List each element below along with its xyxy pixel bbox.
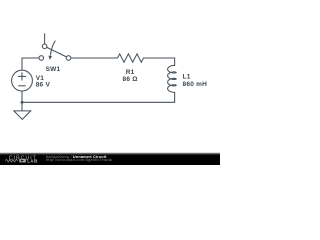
wire top-left horizontal (V1 top to SW1 left terminal)	[22, 58, 39, 70]
CircuitLab logo: resistor zigzag	[5, 159, 18, 162]
resistor R1	[118, 54, 144, 62]
SW1 top terminal	[42, 44, 47, 49]
footer watermark bar	[0, 153, 220, 165]
svg-text:LAB: LAB	[27, 158, 38, 163]
wire bottom (junction to bottom-right)	[22, 101, 175, 103]
svg-text:86 Ω: 86 Ω	[122, 76, 137, 83]
voltage source V1	[12, 70, 33, 91]
SW1 right terminal	[66, 56, 71, 61]
switch SW1	[39, 33, 71, 60]
SW1 lever	[47, 47, 67, 57]
CircuitLab logo: box icon	[19, 159, 26, 163]
junction node	[21, 101, 24, 104]
V1 plus sign	[18, 75, 26, 77]
svg-text:86 V: 86 V	[36, 81, 51, 88]
svg-text:860 mH: 860 mH	[183, 81, 208, 88]
ground	[14, 102, 31, 119]
svg-text:http://circuitlab.com/5ge5tb7m: http://circuitlab.com/5ge5tb7mw4k	[46, 158, 112, 162]
svg-text:R1: R1	[126, 69, 135, 76]
V1 minus sign	[18, 85, 26, 87]
wire L1 bottom to bottom-right corner	[174, 92, 176, 102]
svg-text:L1: L1	[183, 73, 191, 80]
wire V1 bottom to junction	[21, 91, 23, 102]
svg-text:SW1: SW1	[46, 66, 61, 73]
wire SW1 right terminal to R1 left lead	[71, 57, 118, 59]
SW1 throw stub	[44, 33, 46, 44]
SW1 left terminal	[39, 56, 44, 61]
wire R1 right lead to top-right corner down to L1	[144, 58, 175, 66]
SW1 actuation arrow	[50, 41, 55, 56]
inductor L1	[168, 65, 177, 92]
